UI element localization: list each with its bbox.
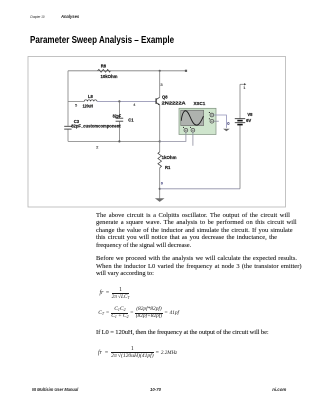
header: chapter line <box>30 14 44 19</box>
capacitor C3 <box>64 125 71 127</box>
svg-text:V8: V8 <box>247 112 253 117</box>
battery top stub with arrow <box>240 83 244 85</box>
svg-text:6V: 6V <box>246 118 251 123</box>
formula 1: fr = 1/(2 pi sqrt(L C_T)) <box>100 286 131 302</box>
resistor R1 <box>158 152 162 168</box>
svg-text:82pF: 82pF <box>113 113 122 118</box>
wire: base rail left segment <box>68 100 85 102</box>
wire: battery column upper <box>239 84 241 118</box>
node: junction top rail / collector <box>159 70 161 72</box>
wire: emitter down to R1 <box>159 105 161 152</box>
wire: scope A to emitter rail <box>160 132 186 141</box>
polarity marks <box>209 112 210 113</box>
ground (scope) <box>223 129 230 132</box>
wire: collector drop <box>159 71 161 97</box>
wire: inductor to base <box>97 100 156 102</box>
scope terminal G <box>210 113 214 117</box>
node: junction bottom rail / C1 <box>118 140 120 142</box>
If L0 line <box>96 329 269 337</box>
wire: battery column lower <box>239 125 241 189</box>
node: junction emitter rail / battery return <box>159 188 161 190</box>
scope trace <box>181 111 203 125</box>
scope terminal B <box>191 128 195 132</box>
oscilloscope XSC1 <box>179 108 216 134</box>
svg-text:1kOhm: 1kOhm <box>162 155 177 160</box>
wire: top rail <box>68 70 186 72</box>
scope terminal T <box>210 119 214 123</box>
scope terminal A <box>184 128 188 132</box>
svg-text:R1: R1 <box>165 165 171 170</box>
node: junction base rail / C1 <box>118 100 120 102</box>
resistor R8 <box>98 69 111 72</box>
wire: R1 to ground <box>159 168 161 199</box>
section title <box>30 35 174 46</box>
svg-text:10kOhm: 10kOhm <box>101 74 118 79</box>
svg-text:82pF_customcomponent: 82pF_customcomponent <box>71 124 121 129</box>
svg-text:R8: R8 <box>101 63 107 68</box>
formula 3: fr = 1/(2 pi sqrt((120uH)(41pf))) = 2.2MHz <box>98 346 178 361</box>
wire: scope G to ground <box>214 115 227 128</box>
node: junction bottom rail / emitter <box>159 140 161 142</box>
wire: C3 bottom to bottom rail <box>67 130 69 142</box>
schematic frame <box>28 57 286 208</box>
paragraph 1 <box>96 212 290 220</box>
svg-text:2N2222A: 2N2222A <box>162 101 186 106</box>
inductor L8 <box>84 100 97 102</box>
transistor Q8 <box>155 98 157 104</box>
wire: bottom rail (node 2) <box>68 140 160 142</box>
svg-text:Q8: Q8 <box>162 95 168 100</box>
battery V8 <box>235 118 245 120</box>
svg-text:C1: C1 <box>128 118 134 123</box>
footer <box>32 387 78 392</box>
ground (bottom) <box>155 198 165 202</box>
svg-text:L8: L8 <box>88 94 94 99</box>
wire: left vertical (top rail to C3 top) <box>67 71 69 126</box>
svg-text:120uH: 120uH <box>83 104 94 109</box>
capacitor C1 <box>118 101 120 117</box>
wire: bottom return rail to battery <box>160 188 240 190</box>
svg-text:XSC1: XSC1 <box>194 101 207 106</box>
node: top rail end square <box>185 70 187 72</box>
formula 2: C_T = C1C2/(C1+C2) = (82pf*82pf)/(82pf+82pf) = 41pf <box>98 306 180 321</box>
wire: scope B stub <box>192 132 194 146</box>
paragraph 2 <box>96 255 297 263</box>
wire: scope T stub <box>214 120 219 122</box>
